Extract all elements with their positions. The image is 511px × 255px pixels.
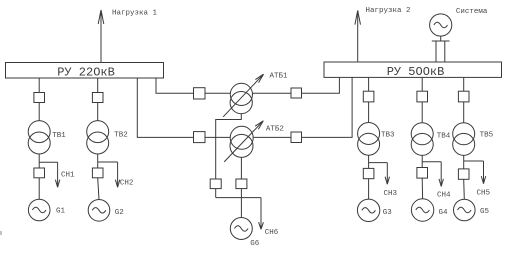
svg-text:Система: Система (456, 8, 488, 16)
svg-text:ТВ4: ТВ4 (437, 132, 451, 140)
svg-text:АТБ2: АТБ2 (266, 125, 284, 133)
svg-text:СН4: СН4 (437, 191, 451, 199)
svg-text:РУ 5ООкВ: РУ 5ООкВ (387, 65, 445, 79)
svg-text:СН2: СН2 (120, 180, 134, 188)
svg-text:РУ 22ОкВ: РУ 22ОкВ (57, 65, 115, 79)
svg-text:G3: G3 (383, 209, 393, 217)
svg-text:СН1: СН1 (61, 172, 75, 180)
svg-text:G5: G5 (480, 208, 490, 216)
svg-text:G2: G2 (115, 209, 124, 217)
svg-text:СН5: СН5 (477, 189, 491, 197)
svg-text:СН3: СН3 (384, 190, 398, 198)
svg-text:G1: G1 (56, 208, 66, 216)
svg-text:Нагрузка 2: Нагрузка 2 (366, 7, 411, 15)
svg-text:G6: G6 (250, 240, 260, 248)
svg-text:АТБ1: АТБ1 (270, 72, 289, 80)
svg-text:ТВ1: ТВ1 (52, 132, 66, 140)
svg-text:G4: G4 (439, 209, 449, 217)
svg-text:ТВ3: ТВ3 (381, 132, 395, 140)
svg-text:Нагрузка 1: Нагрузка 1 (112, 10, 158, 18)
svg-text:ТВ5: ТВ5 (480, 132, 494, 140)
svg-text:СН6: СН6 (265, 229, 279, 237)
svg-text:ТВ2: ТВ2 (114, 132, 128, 140)
